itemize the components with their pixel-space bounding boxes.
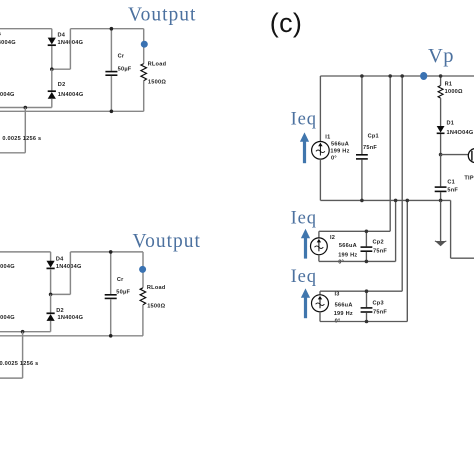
svg-text:566uA: 566uA bbox=[331, 141, 349, 147]
junction dot v3 on Vp rail bbox=[400, 74, 404, 78]
wire junction to D2 cathode (B) bbox=[50, 294, 52, 313]
junction dot cap bottom bbox=[110, 110, 114, 114]
svg-text:I3: I3 bbox=[335, 291, 340, 297]
svg-text:Cp1: Cp1 bbox=[368, 134, 379, 140]
diode D4 (B) bbox=[47, 261, 55, 269]
svg-text:Ieq: Ieq bbox=[291, 267, 317, 287]
arrow Ieq 3 (blue) bbox=[301, 288, 310, 318]
svg-text:1500Ω: 1500Ω bbox=[147, 304, 165, 310]
svg-text:N4004G: N4004G bbox=[0, 315, 15, 321]
wire source branch vertical bbox=[24, 108, 26, 153]
svg-text:75nF: 75nF bbox=[373, 309, 387, 315]
svg-text:1N4004G: 1N4004G bbox=[58, 315, 84, 321]
junction dot on bottom line bbox=[24, 106, 28, 110]
wire return rail exit corner vertical bbox=[450, 200, 452, 258]
wire base node to transistor bbox=[441, 154, 469, 156]
arrow Ieq 2 (blue) bbox=[301, 229, 310, 259]
junction dot v2 on return rail bbox=[394, 199, 398, 203]
resistor R1 bbox=[438, 86, 443, 99]
junction dot cap top bbox=[110, 27, 114, 31]
svg-text:Voutput: Voutput bbox=[128, 4, 196, 25]
svg-text:199 Hz: 199 Hz bbox=[334, 311, 353, 317]
wire I2 left branch lower bbox=[318, 255, 320, 262]
wire I2 top rail bbox=[319, 230, 390, 232]
wire D4 cathode to junction (B) bbox=[50, 269, 52, 294]
wire bottom rail lower bbox=[0, 110, 144, 112]
svg-text:R1: R1 bbox=[445, 82, 453, 88]
junction dot C1 on return rail bbox=[439, 199, 443, 203]
svg-text:199 Hz: 199 Hz bbox=[330, 148, 349, 154]
svg-text:1N4O04G: 1N4O04G bbox=[447, 130, 474, 136]
wire source branch horizontal exit (B) bbox=[0, 377, 23, 379]
wire I3 top rail bbox=[320, 290, 402, 292]
svg-text:G: G bbox=[0, 31, 1, 37]
svg-text:Vp: Vp bbox=[428, 45, 454, 67]
node probe dot (blue, Voutput B) bbox=[139, 266, 146, 273]
wire D1 cathode to base node bbox=[440, 134, 442, 155]
wire D2 anode to bottom bbox=[51, 99, 53, 108]
svg-text:TIP: TIP bbox=[464, 176, 473, 182]
svg-text:0°: 0° bbox=[331, 156, 337, 162]
svg-text:RLoad: RLoad bbox=[148, 61, 167, 67]
svg-text:50µF: 50µF bbox=[116, 290, 130, 296]
resistor RLoad bbox=[141, 64, 147, 81]
wire jog vertical up bbox=[69, 29, 71, 69]
svg-text:D1: D1 bbox=[447, 121, 455, 127]
svg-text:-4004G: -4004G bbox=[0, 92, 15, 98]
svg-text:D4: D4 bbox=[56, 257, 64, 263]
svg-text:I2: I2 bbox=[330, 235, 335, 241]
wire jog vertical up (B) bbox=[69, 252, 71, 295]
wire capacitor Cp3 branch lower bbox=[366, 313, 368, 322]
wire bus v4 (return rail to I3 bottom) bbox=[406, 200, 408, 321]
wire return rail exit horizontal bbox=[451, 257, 474, 259]
junction dot Cp3 top bbox=[365, 289, 369, 293]
junction dot (bridge output node) bbox=[50, 67, 54, 71]
current source I1 bbox=[312, 142, 330, 160]
capacitor Cr (B) bbox=[105, 295, 117, 299]
wire bottom line upper (B) bbox=[0, 331, 51, 333]
wire bus v2 (return rail to I2 bottom) bbox=[395, 200, 397, 261]
wire D2 anode to bottom (B) bbox=[50, 321, 52, 332]
wire bus v3 (Vp rail to I3 top) bbox=[401, 76, 403, 291]
wire Vp top rail bbox=[320, 75, 474, 77]
node probe dot (blue, Voutput) bbox=[141, 41, 148, 48]
svg-text:(c): (c) bbox=[270, 8, 302, 38]
wire D4 anode lead bbox=[51, 29, 53, 38]
svg-text:75nF: 75nF bbox=[373, 249, 387, 255]
svg-text:199 Hz: 199 Hz bbox=[338, 253, 357, 259]
wire RLoad branch lower (B) bbox=[142, 305, 144, 336]
wire bus v1 (Vp rail to I2 top) bbox=[389, 76, 391, 231]
current source I2 bbox=[311, 238, 328, 255]
junction dot base node bbox=[439, 153, 443, 157]
wire capacitor Cr branch upper bbox=[110, 29, 112, 71]
junction dot R1 on Vp rail bbox=[439, 74, 443, 78]
junction dot Cp1 top on Vp rail bbox=[360, 74, 364, 78]
wire I3 left branch upper bbox=[319, 291, 321, 295]
wire I1 left branch lower bbox=[319, 159, 321, 200]
wire D4 anode lead (B) bbox=[50, 252, 52, 261]
svg-text:Voutput: Voutput bbox=[133, 231, 201, 252]
wire capacitor Cr branch upper (B) bbox=[110, 252, 112, 294]
wire capacitor Cp2 branch lower bbox=[365, 252, 367, 262]
svg-text:N4004G: N4004G bbox=[0, 40, 16, 46]
wire junction jog horizontal bbox=[52, 68, 71, 70]
capacitor Cp1 bbox=[356, 155, 368, 159]
svg-text:566uA: 566uA bbox=[339, 243, 357, 249]
svg-text:0°: 0° bbox=[338, 259, 344, 265]
junction dot v1 on Vp rail bbox=[388, 74, 392, 78]
svg-text:C1: C1 bbox=[447, 179, 455, 185]
wire I3 left branch lower bbox=[319, 312, 321, 322]
svg-text:1000Ω: 1000Ω bbox=[445, 89, 463, 95]
transistor Q1 (clipped at right edge) bbox=[468, 149, 474, 163]
wire capacitor Cr branch lower bbox=[110, 76, 112, 111]
svg-text:Cp3: Cp3 bbox=[373, 300, 384, 306]
wire I1 left branch upper bbox=[319, 76, 321, 142]
arrow Ieq 1 (blue) bbox=[300, 132, 309, 163]
wire RLoad branch upper (B) bbox=[142, 252, 144, 288]
capacitor C1 bbox=[435, 187, 447, 191]
svg-text:1500Ω: 1500Ω bbox=[148, 80, 166, 86]
svg-text:I1: I1 bbox=[325, 135, 330, 141]
wire capacitor Cp1 branch upper bbox=[361, 76, 363, 154]
wire I1 bottom return rail bbox=[320, 199, 450, 201]
wire source branch vertical (B) bbox=[22, 332, 24, 378]
current source I3 bbox=[312, 295, 329, 312]
node probe dot (blue, Vp) bbox=[420, 72, 427, 80]
wire I2 left branch upper bbox=[318, 231, 320, 238]
diode D4 bbox=[48, 38, 56, 46]
capacitor Cp3 bbox=[361, 308, 373, 312]
svg-text:N4004G: N4004G bbox=[0, 264, 15, 270]
wire top rail left segment (B) bbox=[0, 251, 51, 253]
junction dot Cp2 bottom bbox=[365, 260, 369, 264]
junction dot (bridge output node B) bbox=[49, 293, 53, 297]
diode D2 bbox=[48, 91, 56, 99]
capacitor Cp2 bbox=[361, 247, 373, 251]
svg-text:Ieq: Ieq bbox=[291, 110, 317, 130]
capacitor Cr bbox=[105, 72, 117, 76]
svg-text:75nF: 75nF bbox=[363, 145, 377, 151]
svg-text:50µF: 50µF bbox=[118, 66, 132, 72]
wire bottom rail lower (B) bbox=[0, 335, 143, 337]
junction dot on bottom line (B) bbox=[21, 330, 25, 334]
wire I2 bottom rail bbox=[319, 260, 396, 262]
wire capacitor Cp1 branch lower bbox=[361, 160, 363, 201]
wire R1 branch upper bbox=[440, 76, 442, 86]
wire capacitor Cp3 branch upper bbox=[366, 291, 368, 307]
wire RLoad branch upper bbox=[143, 29, 145, 64]
wire C1 to return rail bbox=[440, 192, 442, 200]
svg-text:0.0025 1256 s: 0.0025 1256 s bbox=[0, 361, 39, 367]
svg-text:1N4004G: 1N4004G bbox=[56, 264, 82, 270]
wire base node to C1 bbox=[440, 155, 442, 187]
svg-text:Cr: Cr bbox=[117, 277, 124, 283]
junction dot cap bottom (B) bbox=[109, 334, 113, 338]
junction dot cap top (B) bbox=[109, 250, 113, 254]
svg-text:5nF: 5nF bbox=[447, 187, 458, 193]
svg-text:RLoad: RLoad bbox=[147, 285, 166, 291]
wire R1 to D1 bbox=[440, 98, 442, 126]
ground bbox=[435, 241, 446, 246]
wire capacitor Cr branch lower (B) bbox=[110, 299, 112, 336]
wire bottom line upper (to D2) bbox=[0, 107, 52, 109]
junction dot v4 on return rail bbox=[406, 199, 410, 203]
wire ground branch bbox=[440, 200, 442, 241]
resistor RLoad (B) bbox=[140, 288, 146, 305]
svg-text:D4: D4 bbox=[58, 32, 66, 38]
svg-text:D2: D2 bbox=[58, 82, 66, 88]
junction dot Cp1 bottom bbox=[360, 199, 364, 203]
wire I3 bottom rail bbox=[320, 321, 407, 323]
junction dot Cp2 top bbox=[365, 230, 369, 234]
svg-text:Ieq: Ieq bbox=[291, 208, 317, 228]
wire top rail left segment bbox=[0, 28, 52, 30]
diode D2 (B) bbox=[47, 313, 55, 321]
svg-text:D2: D2 bbox=[56, 308, 64, 314]
wire RLoad branch lower bbox=[143, 81, 145, 112]
svg-text:Cp2: Cp2 bbox=[373, 240, 384, 246]
svg-text:0.0025 1256 s: 0.0025 1256 s bbox=[2, 136, 41, 142]
wire source branch horizontal exit bbox=[0, 152, 25, 154]
wire capacitor Cp2 branch upper bbox=[365, 231, 367, 246]
wire top rail right segment bbox=[70, 28, 143, 30]
diode D1 bbox=[437, 126, 445, 133]
junction dot Cp3 bottom bbox=[365, 320, 369, 324]
wire top rail right segment (B) bbox=[70, 251, 143, 253]
svg-text:Cr: Cr bbox=[118, 53, 125, 59]
svg-text:1N4004G: 1N4004G bbox=[58, 92, 84, 98]
wire D4 cathode to junction bbox=[51, 46, 53, 69]
svg-text:566uA: 566uA bbox=[335, 302, 353, 308]
wire junction jog horizontal (B) bbox=[51, 293, 71, 295]
wire junction to D2 cathode bbox=[51, 69, 53, 91]
